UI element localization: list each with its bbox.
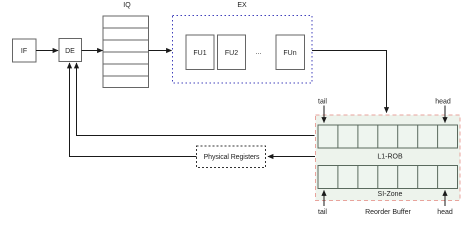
svg-text:head: head <box>437 209 453 216</box>
svg-text:FUn: FUn <box>283 50 296 57</box>
svg-text:IF: IF <box>21 48 27 55</box>
EX block <box>173 16 313 84</box>
head arrow top <box>444 106 446 123</box>
head arrow bottom <box>444 191 446 207</box>
SI-Zone row <box>318 166 458 189</box>
svg-text:DE: DE <box>65 48 75 55</box>
svg-text:Physical Registers: Physical Registers <box>204 154 260 161</box>
Reorder Buffer container <box>316 115 461 201</box>
box DE <box>59 39 82 62</box>
IQ buffer <box>103 16 149 88</box>
wire Reorder Buffer to DE <box>77 63 315 136</box>
Physical Registers box <box>197 146 266 168</box>
FU1 <box>186 35 214 70</box>
tail arrow bottom <box>323 191 325 207</box>
tail arrow top <box>323 106 325 123</box>
FUn <box>276 35 305 70</box>
wire Reorder Buffer to Physical Registers <box>268 156 315 158</box>
svg-text:L1-ROB: L1-ROB <box>377 154 403 161</box>
svg-text:...: ... <box>256 49 262 56</box>
wire IQ to EX <box>149 50 172 52</box>
wire DE to IQ <box>82 50 103 52</box>
wire Physical Registers to DE <box>70 63 197 157</box>
wire IF to DE <box>36 50 58 52</box>
L1-ROB row <box>318 125 458 148</box>
svg-text:tail: tail <box>318 209 327 216</box>
svg-text:Reorder Buffer: Reorder Buffer <box>365 209 411 216</box>
svg-text:FU1: FU1 <box>193 50 206 57</box>
svg-text:IQ: IQ <box>123 2 131 9</box>
FU2 <box>218 35 246 70</box>
wire EX to Reorder Buffer <box>312 51 387 113</box>
svg-text:head: head <box>435 99 451 106</box>
box IF <box>13 39 37 62</box>
svg-text:FU2: FU2 <box>225 50 238 57</box>
svg-text:SI-Zone: SI-Zone <box>378 191 403 198</box>
svg-text:tail: tail <box>318 99 327 106</box>
svg-text:EX: EX <box>237 2 247 9</box>
